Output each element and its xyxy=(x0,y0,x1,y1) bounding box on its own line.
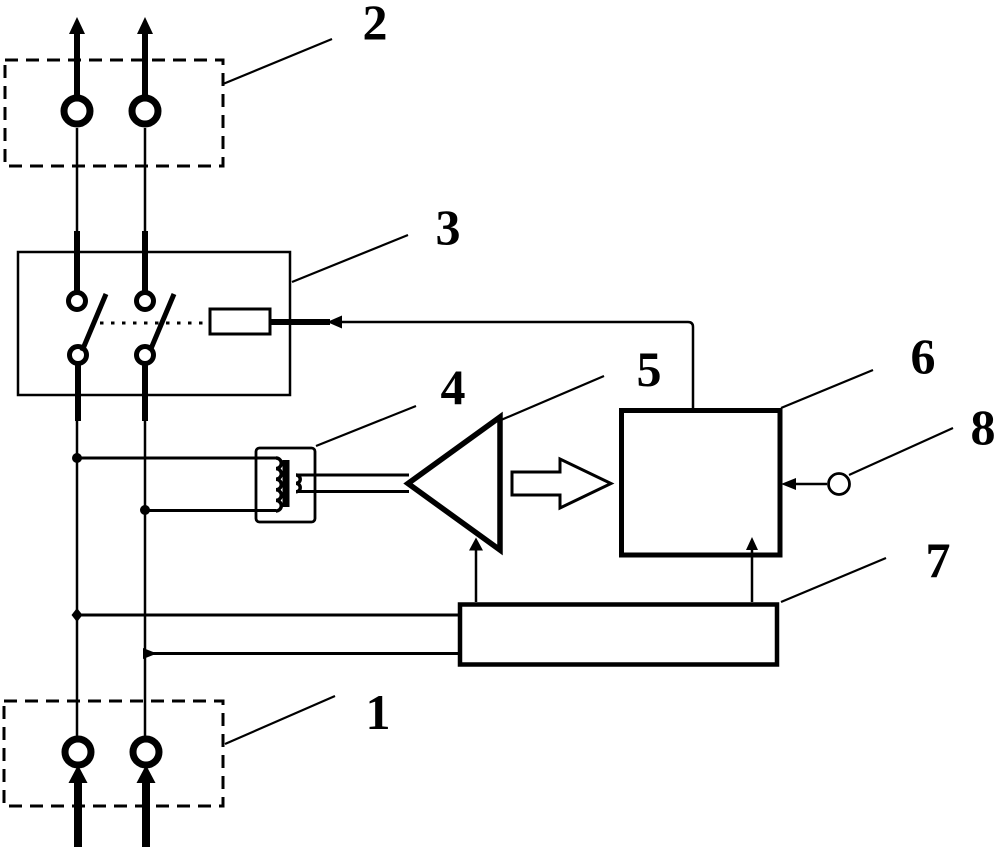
wire: right bus breaker to bottom xyxy=(142,364,148,737)
wire: right bus to box7 xyxy=(143,648,460,659)
wire: bottom-right incoming arrow xyxy=(137,765,156,847)
leader line label 5 xyxy=(501,376,604,420)
dashed box 1 (incoming line CT group) xyxy=(4,701,223,806)
leader line label 7 xyxy=(781,558,886,602)
node: left tap junction xyxy=(72,453,82,463)
wire: box7 to box6 arrow xyxy=(746,537,758,602)
box 6 (protection unit) xyxy=(622,411,781,556)
svg-text:2: 2 xyxy=(363,0,388,50)
svg-text:5: 5 xyxy=(637,341,662,397)
leader line label 3 xyxy=(292,235,408,282)
CT circle bottom-left xyxy=(65,739,91,765)
breaker pole contact left-bottom xyxy=(70,347,87,364)
wire: left bus circle to breaker xyxy=(76,128,79,293)
wire: left bus breaker to bottom xyxy=(77,364,78,737)
CT circle top-right xyxy=(132,98,158,124)
svg-text:8: 8 xyxy=(971,399,996,455)
leader line label 1 xyxy=(225,696,335,744)
svg-text:7: 7 xyxy=(926,532,951,588)
input 8 (circle) xyxy=(829,474,850,495)
wire: left tap to transformer xyxy=(77,457,276,460)
wire: trip coil drive with left arrowhead xyxy=(270,316,693,413)
trip coil xyxy=(210,309,270,334)
breaker pole contact right-top xyxy=(137,293,154,310)
wire: transformer to amplifier (pair) xyxy=(296,475,409,492)
CT circle bottom-right xyxy=(133,739,159,765)
amplifier 5 (triangle) xyxy=(408,417,500,550)
svg-text:6: 6 xyxy=(911,328,936,384)
breaker linkage dotted line xyxy=(100,322,209,325)
breaker pole contact right-bottom xyxy=(137,347,154,364)
voltage transformer 4 xyxy=(256,448,315,522)
wire: circle 8 to box 6 arrow xyxy=(781,478,827,490)
breaker box 3 xyxy=(18,252,290,395)
breaker blade right xyxy=(150,294,174,351)
box 7 (signal unit) xyxy=(460,605,777,665)
svg-text:3: 3 xyxy=(436,199,461,255)
wire: right tap to transformer xyxy=(145,509,276,512)
svg-text:4: 4 xyxy=(441,359,466,415)
wire: left bus to box7 xyxy=(72,608,461,622)
dashed box 2 (outgoing line CT group) xyxy=(5,60,223,166)
leader line label 2 xyxy=(223,39,332,84)
block arrow to box 6 xyxy=(512,459,611,508)
svg-text:1: 1 xyxy=(366,684,391,740)
leader line label 4 xyxy=(316,406,416,446)
breaker blade left xyxy=(82,294,106,351)
wire: left phase top arrow xyxy=(69,17,85,96)
CT circle top-left xyxy=(64,98,90,124)
wire: right phase top arrow xyxy=(137,17,153,96)
wire: box7 to amplifier arrow xyxy=(469,538,483,603)
node: right tap junction xyxy=(140,505,150,515)
leader line label 6 xyxy=(781,370,873,408)
leader line label 8 xyxy=(849,428,953,475)
wire: bottom-left incoming arrow xyxy=(69,765,88,847)
breaker pole contact left-top xyxy=(69,293,86,310)
wire: right bus circle to breaker xyxy=(144,128,147,293)
